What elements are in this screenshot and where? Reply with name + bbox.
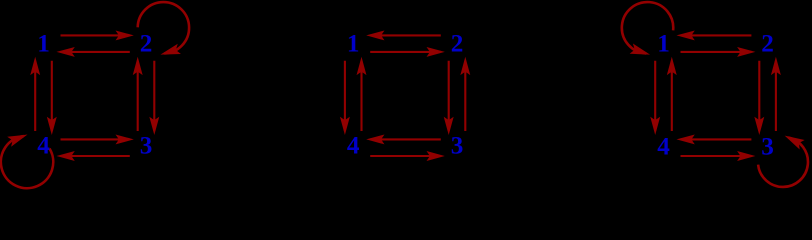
- edge g2 2-&gt;3: [448, 61, 450, 131]
- svg-text:3: 3: [761, 134, 774, 161]
- edge g3 1-&gt;4: [654, 61, 656, 131]
- edge g1 4-&gt;1: [34, 61, 36, 131]
- svg-text:4: 4: [37, 133, 50, 160]
- svg-text:1: 1: [37, 31, 50, 58]
- edge g2 4-&gt;1: [360, 61, 362, 131]
- svg-text:3: 3: [140, 133, 153, 160]
- edge g3 3-&gt;4: [681, 138, 752, 140]
- edge g3 4-&gt;3: [681, 155, 752, 157]
- svg-text:2: 2: [761, 31, 774, 58]
- edge g1 2-&gt;1: [61, 51, 130, 53]
- self-loop g1 node 4: [1, 136, 53, 188]
- edge g1 4-&gt;3: [61, 138, 130, 140]
- edge g2 3-&gt;4: [370, 138, 441, 140]
- edge g1 3-&gt;4: [61, 155, 130, 157]
- self-loop g1 node 2: [138, 2, 189, 53]
- edge g2 2-&gt;1: [370, 34, 441, 36]
- svg-text:2: 2: [140, 31, 153, 58]
- svg-text:1: 1: [657, 31, 670, 58]
- edge g1 3-&gt;2: [137, 61, 139, 131]
- svg-text:3: 3: [451, 133, 464, 160]
- edge g2 4-&gt;3: [370, 155, 441, 157]
- edge g1 1-&gt;4: [51, 61, 53, 131]
- edge g2 1-&gt;2: [370, 51, 441, 53]
- edge g2 1-&gt;4: [344, 61, 346, 131]
- edge g1 2-&gt;3: [153, 61, 155, 131]
- edge g3 2-&gt;3: [758, 61, 760, 131]
- self-loop g3 node 3: [758, 138, 808, 187]
- svg-text:1: 1: [347, 31, 360, 58]
- self-loop g3 node 1: [622, 2, 673, 53]
- edge g3 4-&gt;1: [671, 61, 673, 131]
- edge g3 1-&gt;2: [681, 51, 752, 53]
- edge g1 1-&gt;2: [61, 34, 130, 36]
- edge g3 3-&gt;2: [775, 61, 777, 131]
- edge g3 2-&gt;1: [681, 34, 752, 36]
- edge g2 3-&gt;2: [464, 61, 466, 131]
- svg-text:4: 4: [657, 134, 670, 161]
- svg-text:4: 4: [347, 133, 360, 160]
- svg-text:2: 2: [451, 31, 464, 58]
